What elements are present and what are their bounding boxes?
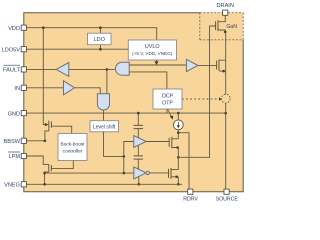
node clamp FET source junction — [222, 70, 225, 73]
svg-text:IN: IN — [14, 86, 20, 92]
node GaN source junction — [224, 31, 227, 34]
IC block body — [24, 13, 243, 192]
pin VDD — [8, 25, 26, 32]
svg-text:LPM: LPM — [8, 154, 20, 160]
svg-text:GND: GND — [8, 111, 20, 117]
wire LPM FET to split node — [45, 172, 124, 174]
svg-text:Level shift: Level shift — [93, 125, 116, 131]
wire OCP bottom to GND rail — [166, 109, 168, 113]
node VNEG-FET junction — [177, 183, 180, 186]
svg-text:UVLO: UVLO — [145, 44, 160, 50]
wire IN line — [24, 87, 64, 89]
svg-text:GaN: GaN — [226, 24, 237, 30]
UVLO box U1 — [128, 40, 176, 60]
node mid push-pull junction — [177, 156, 180, 159]
wire buffer1 output to upper output FET gate — [146, 141, 169, 143]
node LPM FET wire junction — [43, 172, 46, 175]
pin BBSW — [4, 138, 27, 145]
svg-text:DRAIN: DRAIN — [216, 3, 233, 9]
Level shift box — [90, 121, 119, 132]
wire AND input 2 to OCP — [129, 72, 167, 89]
wire level shift to split node — [104, 132, 124, 157]
svg-text:LDO: LDO — [93, 37, 105, 43]
node split junction — [123, 155, 126, 158]
current sense circle (dashed) — [221, 94, 230, 103]
OCP OTP box — [153, 89, 182, 109]
node GND-currentsource junction — [177, 112, 180, 115]
wire VNEG rail — [24, 183, 182, 185]
svg-text:VNEG: VNEG — [4, 183, 20, 189]
svg-text:VDD: VDD — [8, 26, 20, 32]
pin GND — [8, 111, 27, 118]
transistor upper output FET — [169, 137, 178, 148]
wire FAULT node down to AND2 — [106, 69, 108, 93]
wire lower FET source to VNEG rail — [177, 177, 179, 185]
LDO regulator box — [88, 33, 112, 45]
svg-text:(+5 V, VDD, VNEG): (+5 V, VDD, VNEG) — [132, 51, 173, 56]
svg-text:LDO5V: LDO5V — [2, 47, 21, 53]
AND gate fault (points left) — [116, 62, 130, 75]
arrow OCP to current source — [168, 110, 173, 120]
node VDD-LDO junction — [99, 26, 102, 29]
transistor buck-boost low FET — [43, 161, 73, 185]
node GND-source junction — [224, 112, 227, 115]
dashed co-packaged GaN boundary — [200, 13, 243, 40]
wire VDD to left FET drain — [42, 28, 44, 125]
pin VNEG — [4, 182, 26, 189]
pin LDO5V — [2, 47, 27, 54]
wire inverter input from AND output — [69, 68, 115, 70]
wire LPM line — [24, 156, 43, 164]
wire mid node to GaN gate — [178, 26, 215, 157]
node FAULT branch junction — [106, 68, 109, 71]
svg-text:FAULT: FAULT — [3, 67, 21, 73]
inverter drive2 with bubble (points right) — [134, 167, 150, 179]
wire BBSW line — [24, 140, 45, 142]
svg-text:OTP: OTP — [162, 100, 173, 106]
Buck-boost controller box — [58, 134, 87, 161]
AND gate 2 drive enable (points down) — [97, 94, 109, 110]
wire IN buffer output to AND2 — [75, 88, 101, 94]
buffer drive1 (points right) — [134, 136, 146, 148]
transistor GaN power FET — [216, 15, 238, 32]
wire driver buffer output to clamp FET gate — [198, 64, 217, 66]
wire SOURCE vertical — [225, 32, 227, 191]
wire AND input 1 from UVLO to driver buffer — [129, 64, 186, 66]
current source I1 — [173, 113, 183, 139]
node RDRV tee — [177, 131, 180, 134]
node LDO-LDO5V junction — [99, 48, 102, 51]
node upper FET source junction — [176, 146, 179, 149]
pin SOURCE — [216, 189, 239, 202]
buffer gate driver (points right, blue) — [186, 59, 197, 71]
capacitor C1 — [134, 113, 143, 138]
wire AND2 output to level shift — [103, 110, 105, 120]
transistor lower output FET — [169, 168, 179, 179]
transistor buck-boost high FET — [43, 121, 71, 141]
svg-text:RDRV: RDRV — [183, 196, 198, 202]
pin LPM — [8, 152, 26, 160]
wire LDO vertical — [99, 28, 101, 50]
node lower FET source junction — [175, 176, 178, 179]
buffer IN (points right) — [64, 81, 75, 95]
wire UVLO output down with arrow — [154, 60, 158, 65]
wire VDD rail — [24, 28, 157, 40]
capacitor C2 — [134, 145, 143, 169]
pin IN — [14, 85, 26, 92]
pin FAULT — [3, 65, 26, 73]
wire mid node (push-pull output) vertical — [177, 148, 179, 170]
node LPM wire junction — [123, 172, 126, 175]
wire GND rail — [24, 112, 226, 114]
svg-text:controller: controller — [63, 148, 83, 154]
pin DRAIN — [216, 3, 233, 15]
svg-text:Buck-boost: Buck-boost — [61, 141, 86, 147]
inverter fault buffer (points left) — [56, 63, 69, 77]
wire inverter2 output to lower output FET gate — [149, 172, 168, 174]
wire split to buffer1 — [124, 142, 134, 157]
node VDD-left junction — [42, 26, 45, 29]
dashed wire OCP to sense circle — [182, 97, 222, 101]
transistor clamp FET — [217, 60, 226, 72]
svg-text:BBSW: BBSW — [4, 139, 21, 145]
node cap1 junction — [137, 112, 140, 115]
node VNEG junction left — [43, 183, 46, 186]
wire LDO5V rail — [24, 48, 128, 50]
wire FAULT line — [24, 68, 56, 70]
svg-text:OCP: OCP — [162, 93, 174, 99]
wire buffer2 bottom to VNEG — [138, 176, 141, 185]
pin RDRV — [183, 189, 198, 202]
node BBSW junction — [44, 140, 47, 143]
wire to RDRV pin — [178, 133, 189, 191]
svg-text:SOURCE: SOURCE — [216, 196, 239, 202]
wire split to buffer2 — [124, 156, 134, 173]
